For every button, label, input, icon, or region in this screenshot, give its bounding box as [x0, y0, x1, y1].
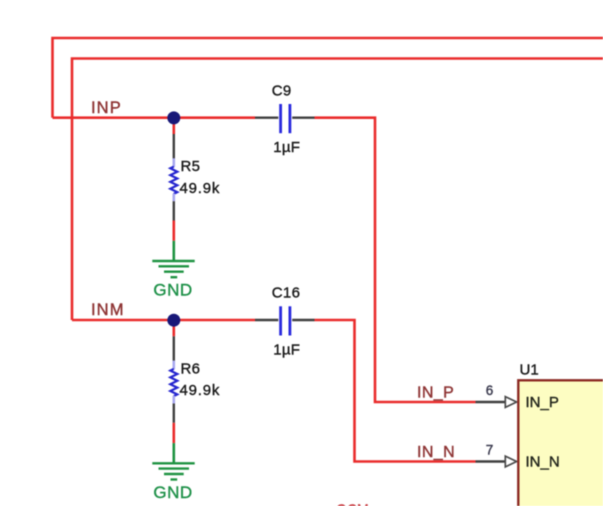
wire black lead to R5 top: [173, 134, 175, 159]
svg-text:IN_P: IN_P: [417, 384, 454, 401]
svg-text:6: 6: [486, 383, 494, 398]
capacitor C16: [255, 306, 315, 335]
resistor R6: [170, 361, 177, 404]
ground GND2: [152, 443, 194, 479]
wire red segment to gnd2: [173, 423, 176, 443]
svg-text:49.9k: 49.9k: [180, 382, 221, 399]
pin 7 lead: [476, 460, 507, 462]
wire INP net: [53, 116, 256, 119]
svg-text:U1: U1: [520, 362, 539, 379]
wire top rail 1: [53, 38, 603, 118]
capacitor C9: [255, 104, 315, 133]
node junction dot J2: [167, 314, 180, 327]
svg-text:1µF: 1µF: [273, 139, 300, 156]
ground GND1: [152, 241, 194, 277]
svg-text:GND: GND: [153, 483, 192, 502]
svg-text:IN_N: IN_N: [526, 453, 560, 470]
svg-text:IN_P: IN_P: [526, 394, 559, 411]
wire black lead to R6 top: [173, 336, 175, 361]
svg-text:7: 7: [486, 442, 494, 457]
wire C16 to pin7: [315, 320, 476, 462]
svg-text:1µF: 1µF: [273, 341, 300, 358]
svg-text:INP: INP: [91, 99, 122, 117]
wire red stub below J1: [173, 118, 176, 134]
svg-text:C9: C9: [272, 82, 292, 99]
svg-text:GND: GND: [153, 281, 192, 300]
wire red segment to gnd1: [173, 221, 176, 241]
wire INM net: [72, 319, 255, 322]
svg-text:R5: R5: [181, 158, 201, 175]
pin 6 arrow: [505, 397, 516, 408]
svg-text:INM: INM: [91, 301, 125, 319]
wire C9 to pin6: [315, 118, 476, 402]
node junction dot J1: [167, 111, 180, 124]
svg-text:IN_N: IN_N: [417, 444, 455, 461]
svg-text:OCM: OCM: [336, 501, 369, 506]
svg-text:C16: C16: [272, 285, 300, 302]
wire black lead R6 bottom: [173, 404, 175, 423]
pin 7 arrow: [505, 456, 516, 467]
op-amp U1 body: [518, 380, 603, 506]
wire red stub below J2: [173, 320, 176, 336]
svg-text:R6: R6: [181, 361, 201, 378]
resistor R5: [170, 158, 177, 201]
wire black lead R5 bottom: [173, 201, 175, 220]
svg-text:49.9k: 49.9k: [180, 180, 221, 197]
wire top rail 2: [72, 59, 603, 321]
pin 6 lead: [476, 401, 507, 403]
